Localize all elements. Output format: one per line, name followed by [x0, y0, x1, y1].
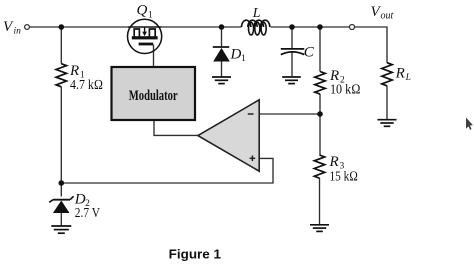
svg-text:L: L — [405, 73, 411, 83]
svg-text:D: D — [230, 47, 242, 63]
svg-text:Modulator: Modulator — [129, 88, 178, 104]
svg-text:Figure 1: Figure 1 — [169, 246, 221, 261]
svg-text:out: out — [381, 11, 394, 22]
svg-text:15 kΩ: 15 kΩ — [330, 170, 359, 185]
svg-text:10 kΩ: 10 kΩ — [330, 83, 361, 98]
svg-text:R: R — [395, 66, 405, 82]
svg-text:1: 1 — [241, 54, 246, 64]
svg-text:2.7 V: 2.7 V — [75, 206, 100, 221]
svg-text:1: 1 — [148, 11, 153, 21]
svg-text:C: C — [304, 45, 315, 61]
svg-text:Q: Q — [137, 2, 148, 18]
svg-text:R: R — [69, 63, 79, 79]
svg-text:R: R — [329, 154, 339, 170]
svg-text:4.7 kΩ: 4.7 kΩ — [70, 78, 103, 93]
svg-text:in: in — [14, 27, 22, 37]
svg-text:L: L — [252, 6, 261, 21]
